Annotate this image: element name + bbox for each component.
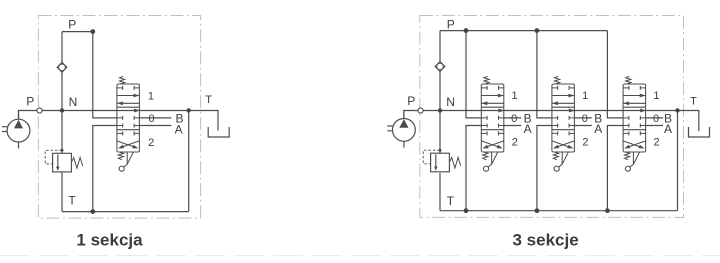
wire bypass return section 1 xyxy=(466,126,481,211)
svg-text:T: T xyxy=(68,193,76,207)
wire bypass return section 2 xyxy=(537,126,552,211)
wire check valve branch vertical xyxy=(439,31,441,154)
svg-text:1: 1 xyxy=(653,90,659,102)
tank T1 xyxy=(208,127,229,137)
svg-text:2: 2 xyxy=(654,137,660,149)
svg-text:A: A xyxy=(664,122,672,136)
wire work port A stub section 3 xyxy=(646,125,663,127)
wire work port B stub section 1 xyxy=(504,117,521,119)
node top rail corner xyxy=(90,29,95,34)
wire check valve branch vertical xyxy=(61,32,63,154)
valve section V2.3 xyxy=(623,76,646,171)
wire work port A stub xyxy=(139,125,171,127)
svg-text:0: 0 xyxy=(149,113,155,125)
svg-text:2: 2 xyxy=(582,137,588,149)
wire bypass return to tank rail xyxy=(93,126,117,212)
node bottom rail junction 1 xyxy=(464,208,469,213)
svg-text:A: A xyxy=(175,123,183,137)
svg-text:T: T xyxy=(447,194,455,208)
wire relief outlet vertical xyxy=(61,172,63,212)
pump P2 xyxy=(387,110,415,148)
svg-text:2: 2 xyxy=(512,137,518,149)
faint page rule at bottom xyxy=(0,255,720,257)
wire bypass feed section 2 xyxy=(537,31,552,118)
wire pump to P port to T outlet (main gallery) xyxy=(19,111,219,131)
svg-text:P: P xyxy=(407,94,415,108)
wire top P rail xyxy=(62,31,93,33)
svg-text:T: T xyxy=(690,96,697,108)
valve section V2.2 xyxy=(552,76,575,171)
wire T return vertical xyxy=(188,111,190,212)
relief valve RV1 xyxy=(45,149,82,172)
wire work port B stub section 2 xyxy=(574,117,591,119)
svg-text:3 sekcje: 3 sekcje xyxy=(513,231,579,250)
node T junction xyxy=(675,108,679,112)
wire bottom tank rail xyxy=(440,210,678,212)
port P boundary circle xyxy=(418,108,423,113)
pump P1 xyxy=(2,111,30,149)
wire work port A stub section 2 xyxy=(574,125,591,127)
valve section V2.1 xyxy=(481,76,504,171)
svg-text:P: P xyxy=(26,94,34,108)
svg-text:1 sekcja: 1 sekcja xyxy=(76,231,143,250)
svg-text:P: P xyxy=(447,17,455,31)
wire work port B stub xyxy=(139,117,171,119)
wire T return vertical xyxy=(677,111,679,211)
svg-text:A: A xyxy=(524,122,532,136)
svg-text:0: 0 xyxy=(582,113,588,125)
wire bypass feed into section xyxy=(93,32,117,118)
node top rail junction 1 xyxy=(464,28,469,33)
svg-text:0: 0 xyxy=(511,113,517,125)
wire work port A stub section 1 xyxy=(504,125,521,127)
node bottom rail junction 3 xyxy=(605,208,610,213)
svg-text:N: N xyxy=(446,95,455,109)
svg-text:1: 1 xyxy=(582,90,588,102)
wire relief outlet vertical xyxy=(439,173,441,211)
check valve CV1 xyxy=(57,62,67,72)
wire bypass feed section 1 xyxy=(466,31,481,118)
svg-text:P: P xyxy=(68,17,76,31)
svg-text:1: 1 xyxy=(148,90,154,102)
node T junction xyxy=(187,108,191,112)
wire work port B stub section 3 xyxy=(646,117,663,119)
wire bypass return section 3 xyxy=(607,126,623,211)
node bottom rail junction xyxy=(90,209,95,214)
node top rail junction 2 xyxy=(535,28,540,33)
svg-text:N: N xyxy=(69,95,78,109)
node bottom rail junction 2 xyxy=(535,208,540,213)
wire bottom tank rail xyxy=(62,211,189,213)
svg-text:A: A xyxy=(594,122,602,136)
valve section V1 xyxy=(117,76,140,171)
enclosure dash-dot border xyxy=(420,16,684,218)
tank T2 xyxy=(689,127,710,137)
svg-text:1: 1 xyxy=(512,90,518,102)
svg-text:T: T xyxy=(205,94,212,106)
wire top P rail xyxy=(440,30,607,32)
svg-text:2: 2 xyxy=(148,137,154,149)
node N junction xyxy=(438,108,442,112)
wire bypass feed section 3 xyxy=(607,31,623,118)
svg-text:0: 0 xyxy=(653,113,659,125)
check valve CV2 xyxy=(435,62,445,72)
wire pump to P port to T outlet (main gallery) xyxy=(404,111,699,132)
relief valve RV2 xyxy=(423,149,461,172)
enclosure dash-dot border xyxy=(38,16,200,219)
port P boundary circle xyxy=(37,108,42,113)
node N junction xyxy=(60,108,64,112)
